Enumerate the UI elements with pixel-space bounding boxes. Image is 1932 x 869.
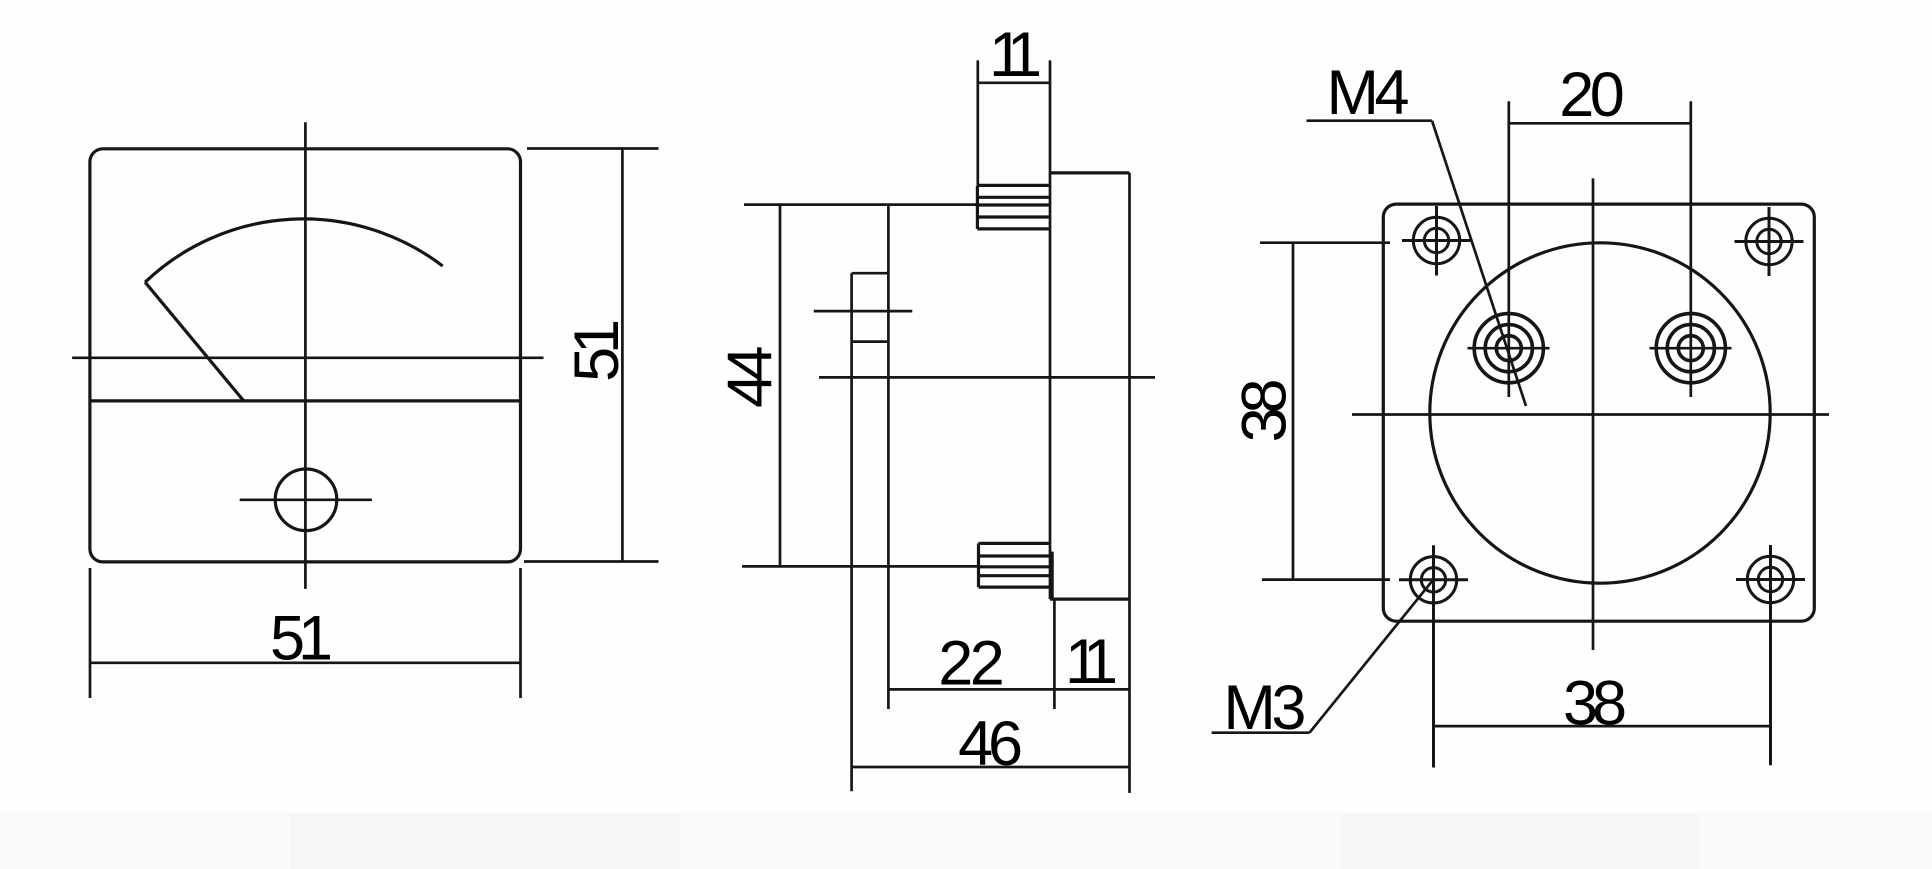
top stud thread lines	[977, 184, 1049, 187]
rear big circle	[1430, 243, 1770, 583]
panel front edge with 11/46 extension	[1128, 173, 1131, 793]
extension line top right	[527, 147, 659, 150]
svg-text:38: 38	[1563, 669, 1627, 739]
corner hole bottom-right	[1736, 545, 1805, 765]
dimension line 38 bottom	[1434, 725, 1771, 728]
svg-text:20: 20	[1559, 60, 1625, 130]
dial lower edge	[90, 399, 521, 402]
svg-text:11: 11	[989, 20, 1042, 90]
dimension line 22 and 11	[888, 688, 1129, 691]
svg-text:51: 51	[562, 319, 632, 382]
38 left extension top	[1260, 241, 1390, 244]
38 left extension bottom	[1262, 578, 1390, 581]
svg-text:22: 22	[938, 629, 1005, 699]
adjuster boss left edge with 46 extension	[850, 273, 853, 791]
zero adjuster slot line	[240, 498, 372, 501]
meter needle	[145, 282, 243, 400]
dimension line 51 vertical	[621, 149, 624, 562]
dimension line 51 bottom	[90, 661, 521, 664]
extension line bottom right2	[519, 568, 522, 698]
meter scale arc	[145, 219, 443, 282]
front panel outline	[90, 149, 521, 562]
svg-text:46: 46	[958, 709, 1023, 779]
scan background tint bottom strip	[0, 813, 1932, 869]
bottom stud dark corner segment	[1049, 552, 1054, 599]
svg-text:38: 38	[1229, 378, 1299, 442]
dimension line 44	[779, 205, 782, 567]
body top edge with 44 extension	[744, 203, 977, 206]
dimension line 11 top / stud top edge	[978, 81, 1050, 84]
top terminal stud left edge	[976, 60, 979, 184]
panel top edge	[1050, 171, 1130, 174]
extension line bottom right	[524, 560, 659, 563]
dimension line 46	[852, 766, 1130, 769]
extension line bottom left	[89, 568, 92, 698]
body bottom edge with 44 extension	[742, 565, 979, 568]
panel bottom edge	[1050, 597, 1130, 600]
terminal stud M4 left	[1468, 314, 1550, 383]
svg-text:11: 11	[1065, 627, 1118, 697]
stud right vertical centerline / 20 extension	[1689, 101, 1692, 397]
zero adjuster circle	[275, 469, 337, 531]
stud left vertical centerline / 20 extension	[1507, 101, 1510, 397]
rear square outline	[1383, 204, 1814, 621]
front horizontal centerline	[72, 356, 543, 359]
svg-text:44: 44	[716, 346, 786, 409]
corner hole top-right	[1735, 207, 1804, 276]
M4 leader diagonal	[1432, 121, 1526, 406]
terminal stud M4 right	[1650, 314, 1732, 383]
side view main centerline	[819, 376, 1155, 379]
adjuster boss inner edge	[852, 340, 889, 343]
top terminal stud right edge / panel back edge	[1049, 60, 1052, 599]
adjuster boss top edge	[852, 272, 889, 275]
svg-text:M4: M4	[1327, 58, 1410, 128]
dimension line 38 left	[1292, 243, 1295, 580]
rear horizontal centerline	[1352, 413, 1829, 416]
dimension line 20	[1509, 122, 1691, 125]
corner hole bottom-left (M3)	[1399, 545, 1468, 767]
extension line 22/11 divider	[1053, 599, 1056, 709]
M3 leader diagonal	[1310, 580, 1434, 733]
body back edge with 22 extension	[887, 205, 890, 709]
M3 leader underline	[1212, 731, 1310, 734]
front vertical centerline	[304, 122, 307, 589]
corner hole top-left	[1402, 206, 1471, 276]
adjuster boss centerline	[814, 310, 913, 313]
bottom stud thread lines	[979, 542, 1050, 545]
rear vertical centerline	[1592, 178, 1595, 650]
svg-text:51: 51	[270, 604, 333, 674]
M4 leader underline	[1307, 119, 1433, 122]
